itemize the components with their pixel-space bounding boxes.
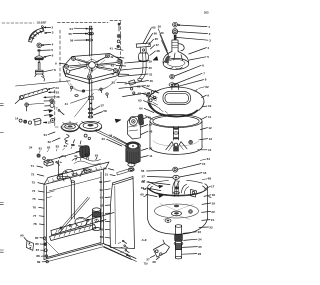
right edge filler labels xyxy=(199,85,212,181)
svg-text:26: 26 xyxy=(56,95,60,99)
side panel top trim xyxy=(117,168,134,175)
svg-text:51: 51 xyxy=(100,243,104,247)
tub ring washer xyxy=(173,167,178,172)
agitator cap leader 1 xyxy=(178,25,211,30)
svg-text:7: 7 xyxy=(203,71,205,75)
svg-text:2: 2 xyxy=(209,32,211,36)
svg-text:84: 84 xyxy=(64,144,68,148)
svg-text:4: 4 xyxy=(207,46,209,50)
svg-text:10: 10 xyxy=(208,104,212,108)
svg-text:46: 46 xyxy=(150,79,154,83)
cabinet left number column xyxy=(31,164,45,226)
gearcase left leader xyxy=(55,62,66,66)
leader + number 2 xyxy=(44,26,53,30)
idler leaders xyxy=(141,116,151,120)
outer tub xyxy=(144,180,211,234)
cabinet top cluster xyxy=(29,143,75,179)
svg-text:65: 65 xyxy=(152,26,156,30)
svg-text:27: 27 xyxy=(146,257,150,261)
svg-text:86: 86 xyxy=(35,242,39,246)
anchor clutch part xyxy=(35,52,44,63)
leaders toward agitator base xyxy=(158,25,170,58)
svg-text:50: 50 xyxy=(100,235,104,239)
bottom-left fastener row xyxy=(15,116,51,125)
svg-text:2: 2 xyxy=(52,26,54,30)
balance ring cap xyxy=(172,84,179,90)
svg-text:36: 36 xyxy=(147,91,151,95)
motor mount bracket xyxy=(115,116,140,139)
svg-text:81: 81 xyxy=(39,147,43,151)
svg-text:12: 12 xyxy=(208,126,212,130)
agitator cap washer xyxy=(172,29,177,34)
agitator shaft lower xyxy=(90,80,92,118)
shaft leaders and numbers xyxy=(70,27,88,31)
svg-text:49: 49 xyxy=(100,227,104,231)
svg-text:89: 89 xyxy=(37,260,41,264)
match line top mid segment xyxy=(110,20,121,22)
gearcase cover plate outline xyxy=(63,54,122,80)
brace leaders xyxy=(48,86,59,90)
spring part left of basket xyxy=(138,114,144,126)
svg-text:31: 31 xyxy=(149,72,153,76)
center number column (cabinet/tub gap) xyxy=(99,167,115,247)
agitator leaders xyxy=(189,46,210,54)
svg-text:71: 71 xyxy=(31,164,35,168)
svg-text:56: 56 xyxy=(70,38,74,42)
match line top horizontal xyxy=(2,21,108,24)
svg-text:48: 48 xyxy=(149,129,153,133)
clutch washers low xyxy=(146,93,150,97)
svg-text:83: 83 xyxy=(56,145,60,149)
leader + number 8 xyxy=(43,68,56,72)
svg-text:87: 87 xyxy=(36,248,40,252)
svg-text:77: 77 xyxy=(33,214,37,218)
svg-text:13: 13 xyxy=(209,137,213,141)
cabinet bottom brace xyxy=(50,225,97,241)
bottom-left parts column xyxy=(35,236,48,264)
leader + number 5 xyxy=(41,48,53,52)
svg-text:78: 78 xyxy=(33,222,37,226)
side panel screws xyxy=(118,240,130,257)
svg-text:19: 19 xyxy=(212,201,216,205)
basket drive block xyxy=(166,140,193,151)
leader + number 3 xyxy=(45,31,54,35)
svg-text:28: 28 xyxy=(152,260,156,264)
svg-text:21: 21 xyxy=(211,218,215,222)
svg-text:34: 34 xyxy=(109,134,113,138)
svg-text:82: 82 xyxy=(47,145,51,149)
spin basket xyxy=(150,114,202,154)
svg-text:62: 62 xyxy=(205,85,209,89)
svg-text:41: 41 xyxy=(110,47,114,51)
tube leaders xyxy=(183,230,201,234)
svg-text:30: 30 xyxy=(149,66,153,70)
diagonal drain pipe xyxy=(58,197,90,232)
far-left corner bracket xyxy=(20,234,33,251)
cap leader 8 xyxy=(179,78,207,87)
suspension brace bar xyxy=(15,88,48,103)
shaft collar leader xyxy=(65,97,87,105)
svg-text:63: 63 xyxy=(138,99,142,103)
leader + number 4 xyxy=(42,43,54,47)
svg-text:15: 15 xyxy=(48,121,52,125)
motor leaders xyxy=(102,137,122,146)
svg-text:23: 23 xyxy=(198,230,202,234)
bar bolt xyxy=(25,103,44,111)
shaft washer stack xyxy=(88,108,93,118)
svg-text:64: 64 xyxy=(139,106,143,110)
svg-text:20: 20 xyxy=(211,210,215,214)
svg-text:14: 14 xyxy=(208,148,212,152)
svg-text:61: 61 xyxy=(137,85,141,89)
svg-text:5: 5 xyxy=(51,48,53,52)
match line vertical left xyxy=(59,30,61,84)
hook under flange xyxy=(42,76,45,81)
svg-text:75: 75 xyxy=(32,197,36,201)
cabinet top face xyxy=(44,162,109,185)
agitator washer leader 2 xyxy=(178,32,211,36)
svg-text:56: 56 xyxy=(141,169,145,173)
svg-text:66: 66 xyxy=(208,177,212,181)
svg-text:8: 8 xyxy=(205,78,207,82)
svg-text:3: 3 xyxy=(52,31,54,35)
svg-text:40: 40 xyxy=(160,31,164,35)
svg-text:35: 35 xyxy=(155,37,159,41)
clutch pulley xyxy=(62,121,79,132)
svg-text:24: 24 xyxy=(29,146,33,150)
svg-text:24: 24 xyxy=(55,86,59,90)
pulley small washers xyxy=(84,134,87,137)
svg-text:9: 9 xyxy=(55,62,57,66)
svg-text:64: 64 xyxy=(207,157,211,161)
gearcase under bolts xyxy=(70,86,102,96)
svg-text:62: 62 xyxy=(48,140,52,144)
svg-text:39: 39 xyxy=(158,25,162,29)
small bracket mid xyxy=(129,80,136,94)
shaft stack leaders xyxy=(93,104,104,110)
wire harness xyxy=(72,153,101,165)
svg-text:85: 85 xyxy=(35,236,39,240)
svg-text:3: 3 xyxy=(209,39,211,43)
ring leaders right xyxy=(202,93,210,97)
svg-text:32: 32 xyxy=(146,84,150,88)
thrust ring under agitator xyxy=(170,74,175,79)
svg-text:A-E: A-E xyxy=(141,238,148,242)
svg-text:88: 88 xyxy=(36,254,40,258)
svg-text:719: 719 xyxy=(144,263,149,266)
drain tube xyxy=(138,52,146,81)
left of tube numbers xyxy=(110,47,123,51)
filter cylinder xyxy=(93,208,101,231)
svg-text:39: 39 xyxy=(99,180,103,184)
svg-text:6: 6 xyxy=(202,63,204,67)
flange block xyxy=(35,70,44,76)
svg-text:43: 43 xyxy=(100,211,104,215)
lower shaft stem xyxy=(38,63,40,70)
svg-text:93: 93 xyxy=(95,154,99,158)
svg-text:15: 15 xyxy=(202,162,206,166)
svg-text:22: 22 xyxy=(209,225,213,229)
drive belt xyxy=(95,129,128,146)
washer ring xyxy=(37,43,42,48)
svg-text:38: 38 xyxy=(156,49,160,53)
seal leader 7 xyxy=(175,71,205,84)
pulley spring xyxy=(65,135,69,145)
clutch nut xyxy=(117,45,120,48)
svg-text:29: 29 xyxy=(149,59,153,63)
match line vertical mid xyxy=(120,22,122,59)
basket hub column xyxy=(173,127,178,141)
cabinet base pan xyxy=(46,247,137,263)
svg-text:203: 203 xyxy=(204,11,209,15)
pulley under numbers xyxy=(44,132,82,148)
tub rim hoses xyxy=(172,179,188,194)
standpipe xyxy=(66,176,75,219)
svg-text:1: 1 xyxy=(208,25,210,29)
svg-text:60: 60 xyxy=(140,192,144,196)
tub rim fitting xyxy=(191,189,197,197)
washer chain near dash edge xyxy=(44,99,55,123)
basket leaders right xyxy=(201,115,212,120)
svg-text:24: 24 xyxy=(198,238,202,242)
gearcase right leaders xyxy=(125,59,153,63)
svg-text:31: 31 xyxy=(105,173,109,177)
svg-text:62: 62 xyxy=(138,92,142,96)
drive pulley xyxy=(79,121,101,131)
screw at bracket top xyxy=(42,26,44,30)
clutch number column xyxy=(143,26,156,44)
cabinet front face xyxy=(44,169,104,260)
svg-text:55: 55 xyxy=(69,32,73,36)
svg-text:41: 41 xyxy=(100,196,104,200)
tub leaders right xyxy=(205,185,214,189)
svg-text:16: 16 xyxy=(203,171,207,175)
svg-text:18: 18 xyxy=(212,193,216,197)
svg-text:54: 54 xyxy=(70,27,74,31)
small screw row xyxy=(56,107,64,115)
left margin tick marks xyxy=(0,104,3,253)
pump body xyxy=(75,214,92,226)
svg-text:4: 4 xyxy=(52,43,54,47)
gearcase ghost body xyxy=(67,79,117,92)
svg-text:8: 8 xyxy=(54,68,56,72)
assembly arrow xyxy=(153,57,158,61)
svg-text:33: 33 xyxy=(102,137,106,141)
svg-text:42: 42 xyxy=(100,203,104,207)
svg-text:6: 6 xyxy=(52,54,54,58)
left number column upper xyxy=(137,85,159,93)
left number column tub xyxy=(140,169,172,197)
clutch washer b xyxy=(117,40,120,43)
svg-text:91: 91 xyxy=(74,154,78,158)
svg-text:72: 72 xyxy=(31,172,35,176)
svg-text:61: 61 xyxy=(44,133,48,137)
svg-text:90: 90 xyxy=(20,234,24,238)
svg-text:76: 76 xyxy=(33,205,37,209)
pivot housing xyxy=(136,43,150,62)
shaft washer b xyxy=(88,32,94,35)
stud bolt above dash frame xyxy=(118,23,121,31)
interior rails xyxy=(51,213,114,236)
svg-text:11: 11 xyxy=(149,154,153,158)
input shaft upper xyxy=(89,26,91,56)
ring left clips xyxy=(151,91,154,94)
svg-text:73: 73 xyxy=(32,181,36,185)
svg-text:67: 67 xyxy=(142,179,146,183)
agitator cap screw xyxy=(173,22,178,27)
svg-text:5: 5 xyxy=(207,55,209,59)
svg-text:68: 68 xyxy=(143,187,147,191)
gearcase plate ribs xyxy=(69,57,118,75)
balance ring xyxy=(148,87,204,117)
shaft ring c xyxy=(89,39,93,41)
shaft washer a xyxy=(88,28,93,30)
clutch ring a xyxy=(117,34,121,38)
svg-text:44: 44 xyxy=(100,219,104,223)
pulley leader line xyxy=(75,93,94,116)
cam bracket (ribbed crescent) xyxy=(29,28,44,42)
svg-text:25: 25 xyxy=(56,90,60,94)
leader + number 6 xyxy=(44,54,54,58)
top hoses xyxy=(62,168,90,181)
svg-text:37: 37 xyxy=(156,43,160,47)
thrust ring leader 6 xyxy=(174,63,204,76)
tub seal xyxy=(173,175,179,179)
suspension top line xyxy=(16,81,71,86)
cabinet side panel xyxy=(110,177,134,249)
shaft collar xyxy=(88,96,93,104)
seal washer xyxy=(169,83,175,87)
tub leaders left xyxy=(142,179,158,186)
svg-text:57: 57 xyxy=(101,104,105,108)
gearcase lower leaders xyxy=(119,84,150,89)
svg-text:9: 9 xyxy=(207,93,209,97)
motor xyxy=(126,142,141,172)
gearcase skirt xyxy=(63,61,122,84)
hose bracket bottom right xyxy=(154,240,170,257)
svg-text:25: 25 xyxy=(198,245,202,249)
svg-text:40: 40 xyxy=(99,188,103,192)
center post tube xyxy=(174,225,183,259)
agitator stud leader 3 xyxy=(176,37,211,42)
agitator xyxy=(163,40,189,69)
svg-text:14: 14 xyxy=(15,116,19,120)
svg-text:17: 17 xyxy=(211,185,215,189)
water valve xyxy=(76,146,89,161)
spacer xyxy=(37,49,41,51)
svg-text:43: 43 xyxy=(111,63,115,67)
svg-text:41: 41 xyxy=(65,102,69,106)
svg-text:30: 30 xyxy=(103,167,107,171)
svg-text:85: 85 xyxy=(71,143,75,147)
svg-text:11: 11 xyxy=(208,115,212,119)
extra bolt under plate xyxy=(106,93,108,98)
svg-text:66: 66 xyxy=(154,31,158,35)
svg-text:26: 26 xyxy=(198,252,202,256)
svg-text:110.8287: 110.8287 xyxy=(37,22,48,25)
svg-text:92: 92 xyxy=(85,153,89,157)
agitator stud xyxy=(174,35,176,39)
svg-text:7: 7 xyxy=(56,107,58,111)
svg-text:74: 74 xyxy=(32,189,36,193)
svg-text:57: 57 xyxy=(142,174,146,178)
svg-text:58: 58 xyxy=(103,109,107,113)
valve rod xyxy=(47,153,77,162)
cabinet base edges xyxy=(104,244,137,260)
